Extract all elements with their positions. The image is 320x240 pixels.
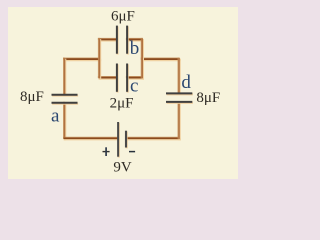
wire: right branch upper (top corner down to cap d) <box>179 59 180 94</box>
wire: parallel box bottom edge, right of capacitor c <box>127 77 143 78</box>
capacitor a (8uF): top plate <box>52 94 79 97</box>
svg-text:8μF: 8μF <box>196 90 220 106</box>
wire: left branch lower (cap a down to bottom corner) <box>64 103 65 139</box>
wire: parallel box bottom edge, left of capacitor c <box>99 77 117 78</box>
wire: parallel box right edge (junction wire) <box>142 39 143 78</box>
wire: parallel box top edge, left of capacitor b <box>99 39 117 40</box>
capacitor d (8uF): bottom plate <box>166 101 193 104</box>
svg-text:8μF: 8μF <box>20 89 44 105</box>
capacitor c (2uF): left plate <box>116 64 119 93</box>
capacitor b (6uF): left plate <box>116 26 119 55</box>
svg-text:9V: 9V <box>113 159 131 175</box>
wire: top-right horizontal (parallel box to cap d node) <box>142 59 180 60</box>
svg-text:d: d <box>181 72 191 93</box>
capacitor d (8uF): top plate <box>166 92 193 95</box>
wire: bottom-right horizontal (battery - plate to corner) <box>126 138 179 139</box>
wire: left branch upper (top corner down to cap a) <box>64 59 65 95</box>
battery 9V: short negative plate <box>125 131 128 149</box>
wire: parallel box top edge, right of capacitor b <box>127 39 143 40</box>
svg-text:c: c <box>130 76 138 97</box>
wire: top-left horizontal (cap a node to parallel box) <box>64 59 100 60</box>
cream figure panel <box>8 7 238 179</box>
battery polarity: plus sign <box>103 151 110 153</box>
svg-text:a: a <box>51 106 60 127</box>
capacitor c (2uF): right plate <box>126 64 129 93</box>
svg-text:2μF: 2μF <box>110 96 134 112</box>
wire: parallel box left edge (junction wire) <box>99 39 100 78</box>
svg-text:6μF: 6μF <box>111 9 135 25</box>
battery polarity: minus sign <box>129 151 135 153</box>
battery 9V: long positive plate <box>117 122 120 158</box>
capacitor b (6uF): right plate <box>126 26 129 55</box>
svg-text:b: b <box>130 38 140 59</box>
capacitor a (8uF): bottom plate <box>52 102 79 105</box>
wire: bottom-left horizontal (corner to battery + plate) <box>64 138 118 139</box>
wire: right branch lower (cap d down to bottom corner) <box>179 102 180 139</box>
